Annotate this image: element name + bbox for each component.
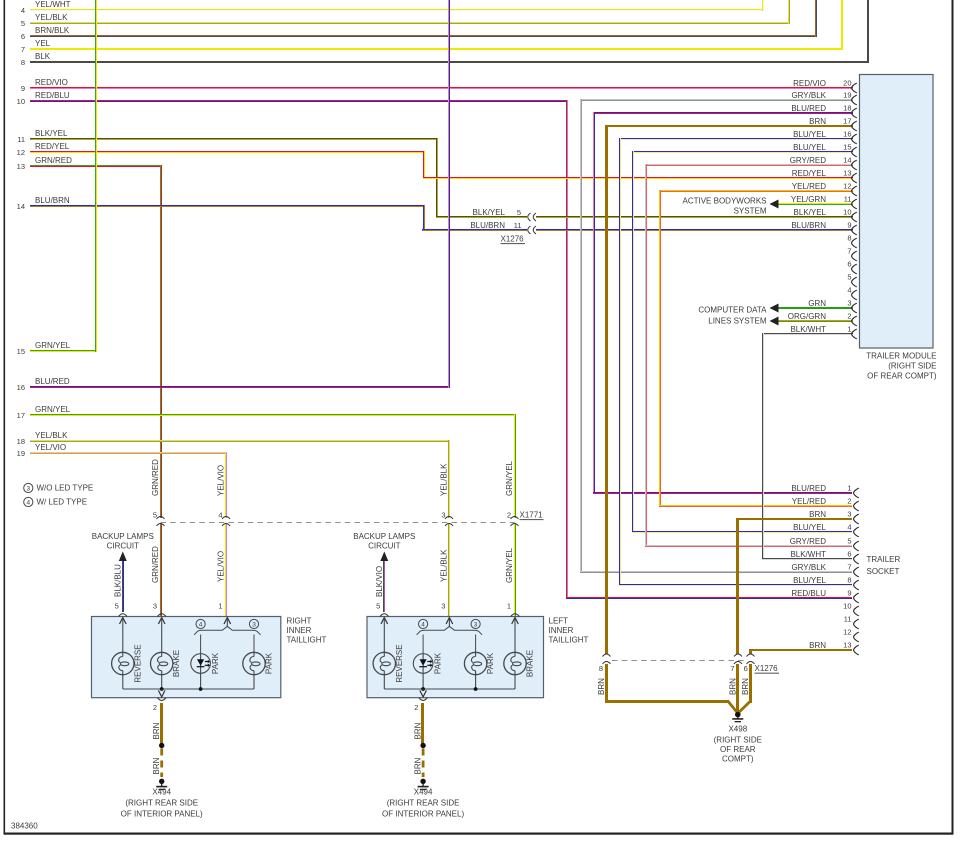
svg-text:1: 1 bbox=[847, 484, 851, 493]
svg-text:INNER: INNER bbox=[549, 626, 574, 635]
svg-text:CIRCUIT: CIRCUIT bbox=[368, 542, 401, 551]
svg-text:GRN/YEL: GRN/YEL bbox=[505, 460, 514, 496]
svg-text:3: 3 bbox=[252, 621, 256, 628]
svg-text:6: 6 bbox=[847, 550, 851, 559]
svg-text:11: 11 bbox=[17, 135, 25, 144]
svg-text:7: 7 bbox=[21, 45, 25, 54]
svg-text:5: 5 bbox=[517, 208, 521, 217]
svg-text:3: 3 bbox=[441, 602, 445, 611]
svg-text:BLU/BRN: BLU/BRN bbox=[470, 221, 505, 230]
svg-text:6: 6 bbox=[21, 32, 25, 41]
svg-text:YEL/GRN: YEL/GRN bbox=[791, 195, 826, 204]
svg-text:5: 5 bbox=[376, 602, 380, 611]
svg-text:RED/BLU: RED/BLU bbox=[791, 589, 826, 598]
svg-text:SYSTEM: SYSTEM bbox=[734, 207, 767, 216]
svg-text:W/ LED TYPE: W/ LED TYPE bbox=[37, 498, 88, 507]
svg-text:5: 5 bbox=[21, 19, 25, 28]
svg-text:7: 7 bbox=[847, 247, 851, 256]
svg-text:1: 1 bbox=[218, 602, 222, 611]
svg-text:3: 3 bbox=[474, 621, 478, 628]
svg-text:YEL/VIO: YEL/VIO bbox=[217, 465, 226, 496]
svg-text:10: 10 bbox=[843, 602, 851, 611]
svg-text:YEL/VIO: YEL/VIO bbox=[35, 443, 66, 452]
svg-text:OF INTERIOR PANEL): OF INTERIOR PANEL) bbox=[121, 810, 203, 819]
svg-text:4: 4 bbox=[218, 511, 222, 520]
svg-text:PARK: PARK bbox=[434, 652, 443, 674]
svg-text:BLK/YEL: BLK/YEL bbox=[35, 129, 68, 138]
svg-text:18: 18 bbox=[17, 437, 25, 446]
svg-text:GRY/BLK: GRY/BLK bbox=[791, 91, 826, 100]
svg-text:20: 20 bbox=[843, 79, 851, 88]
svg-text:GRN/RED: GRN/RED bbox=[151, 459, 160, 496]
svg-text:BLK: BLK bbox=[35, 52, 51, 61]
svg-text:GRN/RED: GRN/RED bbox=[151, 546, 160, 583]
svg-text:8: 8 bbox=[599, 664, 603, 673]
svg-text:15: 15 bbox=[17, 347, 25, 356]
svg-text:X1276: X1276 bbox=[755, 664, 779, 673]
svg-text:BLU/YEL: BLU/YEL bbox=[793, 130, 826, 139]
svg-text:2: 2 bbox=[153, 703, 157, 712]
svg-text:TRAILER: TRAILER bbox=[867, 555, 901, 564]
svg-text:3: 3 bbox=[847, 299, 851, 308]
svg-text:OF REAR: OF REAR bbox=[720, 745, 756, 754]
svg-text:4: 4 bbox=[421, 621, 425, 628]
svg-text:GRY/RED: GRY/RED bbox=[790, 537, 827, 546]
svg-text:4: 4 bbox=[26, 499, 30, 506]
svg-text:9: 9 bbox=[21, 84, 25, 93]
svg-text:OF INTERIOR PANEL): OF INTERIOR PANEL) bbox=[382, 810, 464, 819]
svg-text:15: 15 bbox=[843, 143, 851, 152]
svg-text:4: 4 bbox=[199, 621, 203, 628]
svg-text:384360: 384360 bbox=[11, 822, 38, 831]
svg-text:11: 11 bbox=[844, 195, 852, 204]
svg-text:SOCKET: SOCKET bbox=[867, 567, 900, 576]
svg-text:14: 14 bbox=[17, 202, 25, 211]
svg-text:BRN: BRN bbox=[414, 722, 423, 739]
svg-text:BLK/WHT: BLK/WHT bbox=[790, 325, 826, 334]
svg-text:9: 9 bbox=[847, 221, 851, 230]
svg-text:RED/YEL: RED/YEL bbox=[35, 142, 70, 151]
svg-text:(RIGHT SIDE: (RIGHT SIDE bbox=[714, 736, 762, 745]
svg-text:X494: X494 bbox=[152, 788, 171, 797]
svg-text:BRN: BRN bbox=[728, 678, 737, 695]
svg-text:1: 1 bbox=[847, 325, 851, 334]
svg-text:CIRCUIT: CIRCUIT bbox=[107, 542, 140, 551]
svg-text:REVERSE: REVERSE bbox=[133, 644, 142, 682]
svg-text:RED/VIO: RED/VIO bbox=[35, 78, 68, 87]
svg-text:9: 9 bbox=[847, 589, 851, 598]
svg-text:16: 16 bbox=[843, 130, 851, 139]
svg-text:BLU/YEL: BLU/YEL bbox=[793, 143, 826, 152]
svg-text:3: 3 bbox=[847, 510, 851, 519]
svg-text:5: 5 bbox=[847, 273, 851, 282]
svg-text:LEFT: LEFT bbox=[549, 617, 569, 626]
svg-text:7: 7 bbox=[847, 563, 851, 572]
svg-text:2: 2 bbox=[847, 312, 851, 321]
svg-text:GRY/BLK: GRY/BLK bbox=[791, 563, 826, 572]
svg-text:X1771: X1771 bbox=[520, 511, 544, 520]
svg-text:BLK/WHT: BLK/WHT bbox=[790, 550, 826, 559]
svg-text:BLU/YEL: BLU/YEL bbox=[793, 576, 826, 585]
svg-text:BRN: BRN bbox=[414, 757, 423, 774]
svg-text:6: 6 bbox=[847, 260, 851, 269]
svg-text:YEL/BLK: YEL/BLK bbox=[440, 463, 449, 496]
svg-text:GRN/YEL: GRN/YEL bbox=[505, 547, 514, 583]
svg-text:YEL/RED: YEL/RED bbox=[792, 182, 826, 191]
svg-text:BLU/RED: BLU/RED bbox=[791, 484, 826, 493]
svg-text:BLK/YEL: BLK/YEL bbox=[473, 208, 506, 217]
svg-text:YEL/WHT: YEL/WHT bbox=[35, 0, 71, 9]
svg-text:13: 13 bbox=[843, 641, 851, 650]
svg-text:5: 5 bbox=[847, 537, 851, 546]
svg-text:X498: X498 bbox=[728, 725, 747, 734]
svg-text:OF REAR COMPT): OF REAR COMPT) bbox=[867, 372, 937, 381]
svg-text:19: 19 bbox=[843, 91, 851, 100]
svg-text:RIGHT: RIGHT bbox=[287, 617, 312, 626]
svg-text:(RIGHT SIDE: (RIGHT SIDE bbox=[888, 362, 936, 371]
svg-text:ORG/GRN: ORG/GRN bbox=[788, 312, 826, 321]
svg-text:BRN: BRN bbox=[152, 722, 161, 739]
svg-text:LINES SYSTEM: LINES SYSTEM bbox=[708, 317, 767, 326]
svg-text:5: 5 bbox=[115, 602, 119, 611]
svg-text:BLK/YEL: BLK/YEL bbox=[794, 208, 827, 217]
svg-text:(RIGHT REAR SIDE: (RIGHT REAR SIDE bbox=[125, 799, 198, 808]
svg-text:19: 19 bbox=[17, 449, 25, 458]
svg-text:COMPT): COMPT) bbox=[722, 755, 754, 764]
svg-text:X494: X494 bbox=[414, 788, 433, 797]
svg-text:12: 12 bbox=[17, 148, 25, 157]
svg-text:RED/VIO: RED/VIO bbox=[793, 79, 826, 88]
svg-text:18: 18 bbox=[843, 104, 851, 113]
svg-text:BLU/BRN: BLU/BRN bbox=[35, 196, 70, 205]
svg-text:BLU/YEL: BLU/YEL bbox=[793, 523, 826, 532]
svg-text:11: 11 bbox=[844, 615, 852, 624]
svg-text:TAILLIGHT: TAILLIGHT bbox=[549, 636, 589, 645]
svg-text:BRN: BRN bbox=[152, 757, 161, 774]
svg-text:COMPUTER DATA: COMPUTER DATA bbox=[698, 306, 767, 315]
svg-text:4: 4 bbox=[21, 6, 25, 15]
svg-text:14: 14 bbox=[843, 156, 851, 165]
svg-text:8: 8 bbox=[847, 576, 851, 585]
svg-text:GRN/YEL: GRN/YEL bbox=[35, 341, 71, 350]
svg-text:BRN: BRN bbox=[741, 678, 750, 695]
svg-text:13: 13 bbox=[843, 169, 851, 178]
svg-text:12: 12 bbox=[843, 182, 851, 191]
svg-text:PARK: PARK bbox=[211, 652, 220, 674]
svg-text:GRN: GRN bbox=[808, 299, 826, 308]
svg-text:4: 4 bbox=[847, 523, 851, 532]
svg-text:YEL/BLK: YEL/BLK bbox=[35, 431, 68, 440]
svg-text:GRN/YEL: GRN/YEL bbox=[35, 405, 71, 414]
svg-text:PARK: PARK bbox=[486, 652, 495, 674]
svg-text:YEL/VIO: YEL/VIO bbox=[217, 551, 226, 582]
svg-text:12: 12 bbox=[843, 628, 851, 637]
svg-text:10: 10 bbox=[843, 208, 851, 217]
svg-text:ACTIVE BODYWORKS: ACTIVE BODYWORKS bbox=[682, 197, 766, 206]
svg-text:BACKUP LAMPS: BACKUP LAMPS bbox=[92, 532, 154, 541]
svg-text:X1276: X1276 bbox=[501, 235, 525, 244]
svg-text:TAILLIGHT: TAILLIGHT bbox=[287, 636, 327, 645]
svg-text:11: 11 bbox=[514, 221, 522, 230]
svg-text:3: 3 bbox=[153, 602, 157, 611]
svg-text:(RIGHT REAR SIDE: (RIGHT REAR SIDE bbox=[387, 799, 460, 808]
svg-text:BRN: BRN bbox=[597, 678, 606, 695]
svg-text:2: 2 bbox=[414, 703, 418, 712]
svg-text:3: 3 bbox=[26, 485, 30, 492]
svg-text:BLU/RED: BLU/RED bbox=[791, 104, 826, 113]
svg-text:16: 16 bbox=[17, 383, 25, 392]
svg-text:BACKUP LAMPS: BACKUP LAMPS bbox=[353, 532, 415, 541]
svg-text:2: 2 bbox=[507, 511, 511, 520]
svg-text:BRAKE: BRAKE bbox=[172, 650, 181, 677]
svg-text:YEL/BLK: YEL/BLK bbox=[35, 13, 68, 22]
svg-text:5: 5 bbox=[153, 511, 157, 520]
svg-text:10: 10 bbox=[17, 97, 25, 106]
svg-text:4: 4 bbox=[847, 286, 851, 295]
svg-text:7: 7 bbox=[730, 664, 734, 673]
svg-text:INNER: INNER bbox=[287, 626, 312, 635]
svg-text:GRN/RED: GRN/RED bbox=[35, 156, 72, 165]
svg-text:BRAKE: BRAKE bbox=[526, 650, 535, 677]
svg-text:1: 1 bbox=[507, 602, 511, 611]
svg-text:BLU/BRN: BLU/BRN bbox=[791, 221, 826, 230]
svg-text:RED/YEL: RED/YEL bbox=[792, 169, 827, 178]
svg-text:GRY/RED: GRY/RED bbox=[790, 156, 827, 165]
svg-text:17: 17 bbox=[17, 411, 25, 420]
svg-text:BRN/BLK: BRN/BLK bbox=[35, 26, 70, 35]
svg-text:TRAILER MODULE: TRAILER MODULE bbox=[866, 352, 936, 361]
svg-text:YEL/RED: YEL/RED bbox=[792, 497, 826, 506]
svg-text:W/O LED TYPE: W/O LED TYPE bbox=[37, 484, 94, 493]
svg-text:3: 3 bbox=[441, 511, 445, 520]
svg-text:PARK: PARK bbox=[265, 652, 274, 674]
svg-text:2: 2 bbox=[847, 497, 851, 506]
svg-text:YEL: YEL bbox=[35, 39, 51, 48]
svg-text:BLU/RED: BLU/RED bbox=[35, 377, 70, 386]
svg-text:6: 6 bbox=[744, 664, 748, 673]
svg-text:BRN: BRN bbox=[809, 510, 826, 519]
svg-text:BLK/VIO: BLK/VIO bbox=[375, 566, 384, 597]
svg-text:BLK/BLU: BLK/BLU bbox=[114, 564, 123, 597]
svg-text:13: 13 bbox=[17, 162, 25, 171]
svg-text:8: 8 bbox=[847, 234, 851, 243]
svg-text:REVERSE: REVERSE bbox=[395, 644, 404, 682]
svg-text:RED/BLU: RED/BLU bbox=[35, 91, 70, 100]
svg-text:BRN: BRN bbox=[809, 641, 826, 650]
svg-text:17: 17 bbox=[843, 117, 851, 126]
svg-text:BRN: BRN bbox=[809, 117, 826, 126]
svg-text:YEL/BLK: YEL/BLK bbox=[440, 549, 449, 582]
svg-text:8: 8 bbox=[21, 58, 25, 67]
